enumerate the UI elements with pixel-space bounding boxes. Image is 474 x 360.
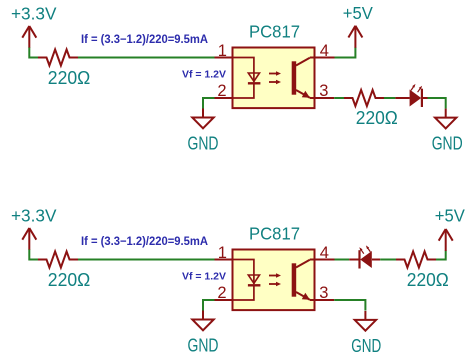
svg-text:220Ω: 220Ω: [407, 270, 449, 290]
svg-text:+5V: +5V: [435, 206, 465, 226]
svg-text:220Ω: 220Ω: [356, 108, 398, 128]
svg-text:+5V: +5V: [343, 3, 373, 23]
svg-text:GND: GND: [432, 134, 463, 154]
svg-text:GND: GND: [351, 336, 381, 356]
